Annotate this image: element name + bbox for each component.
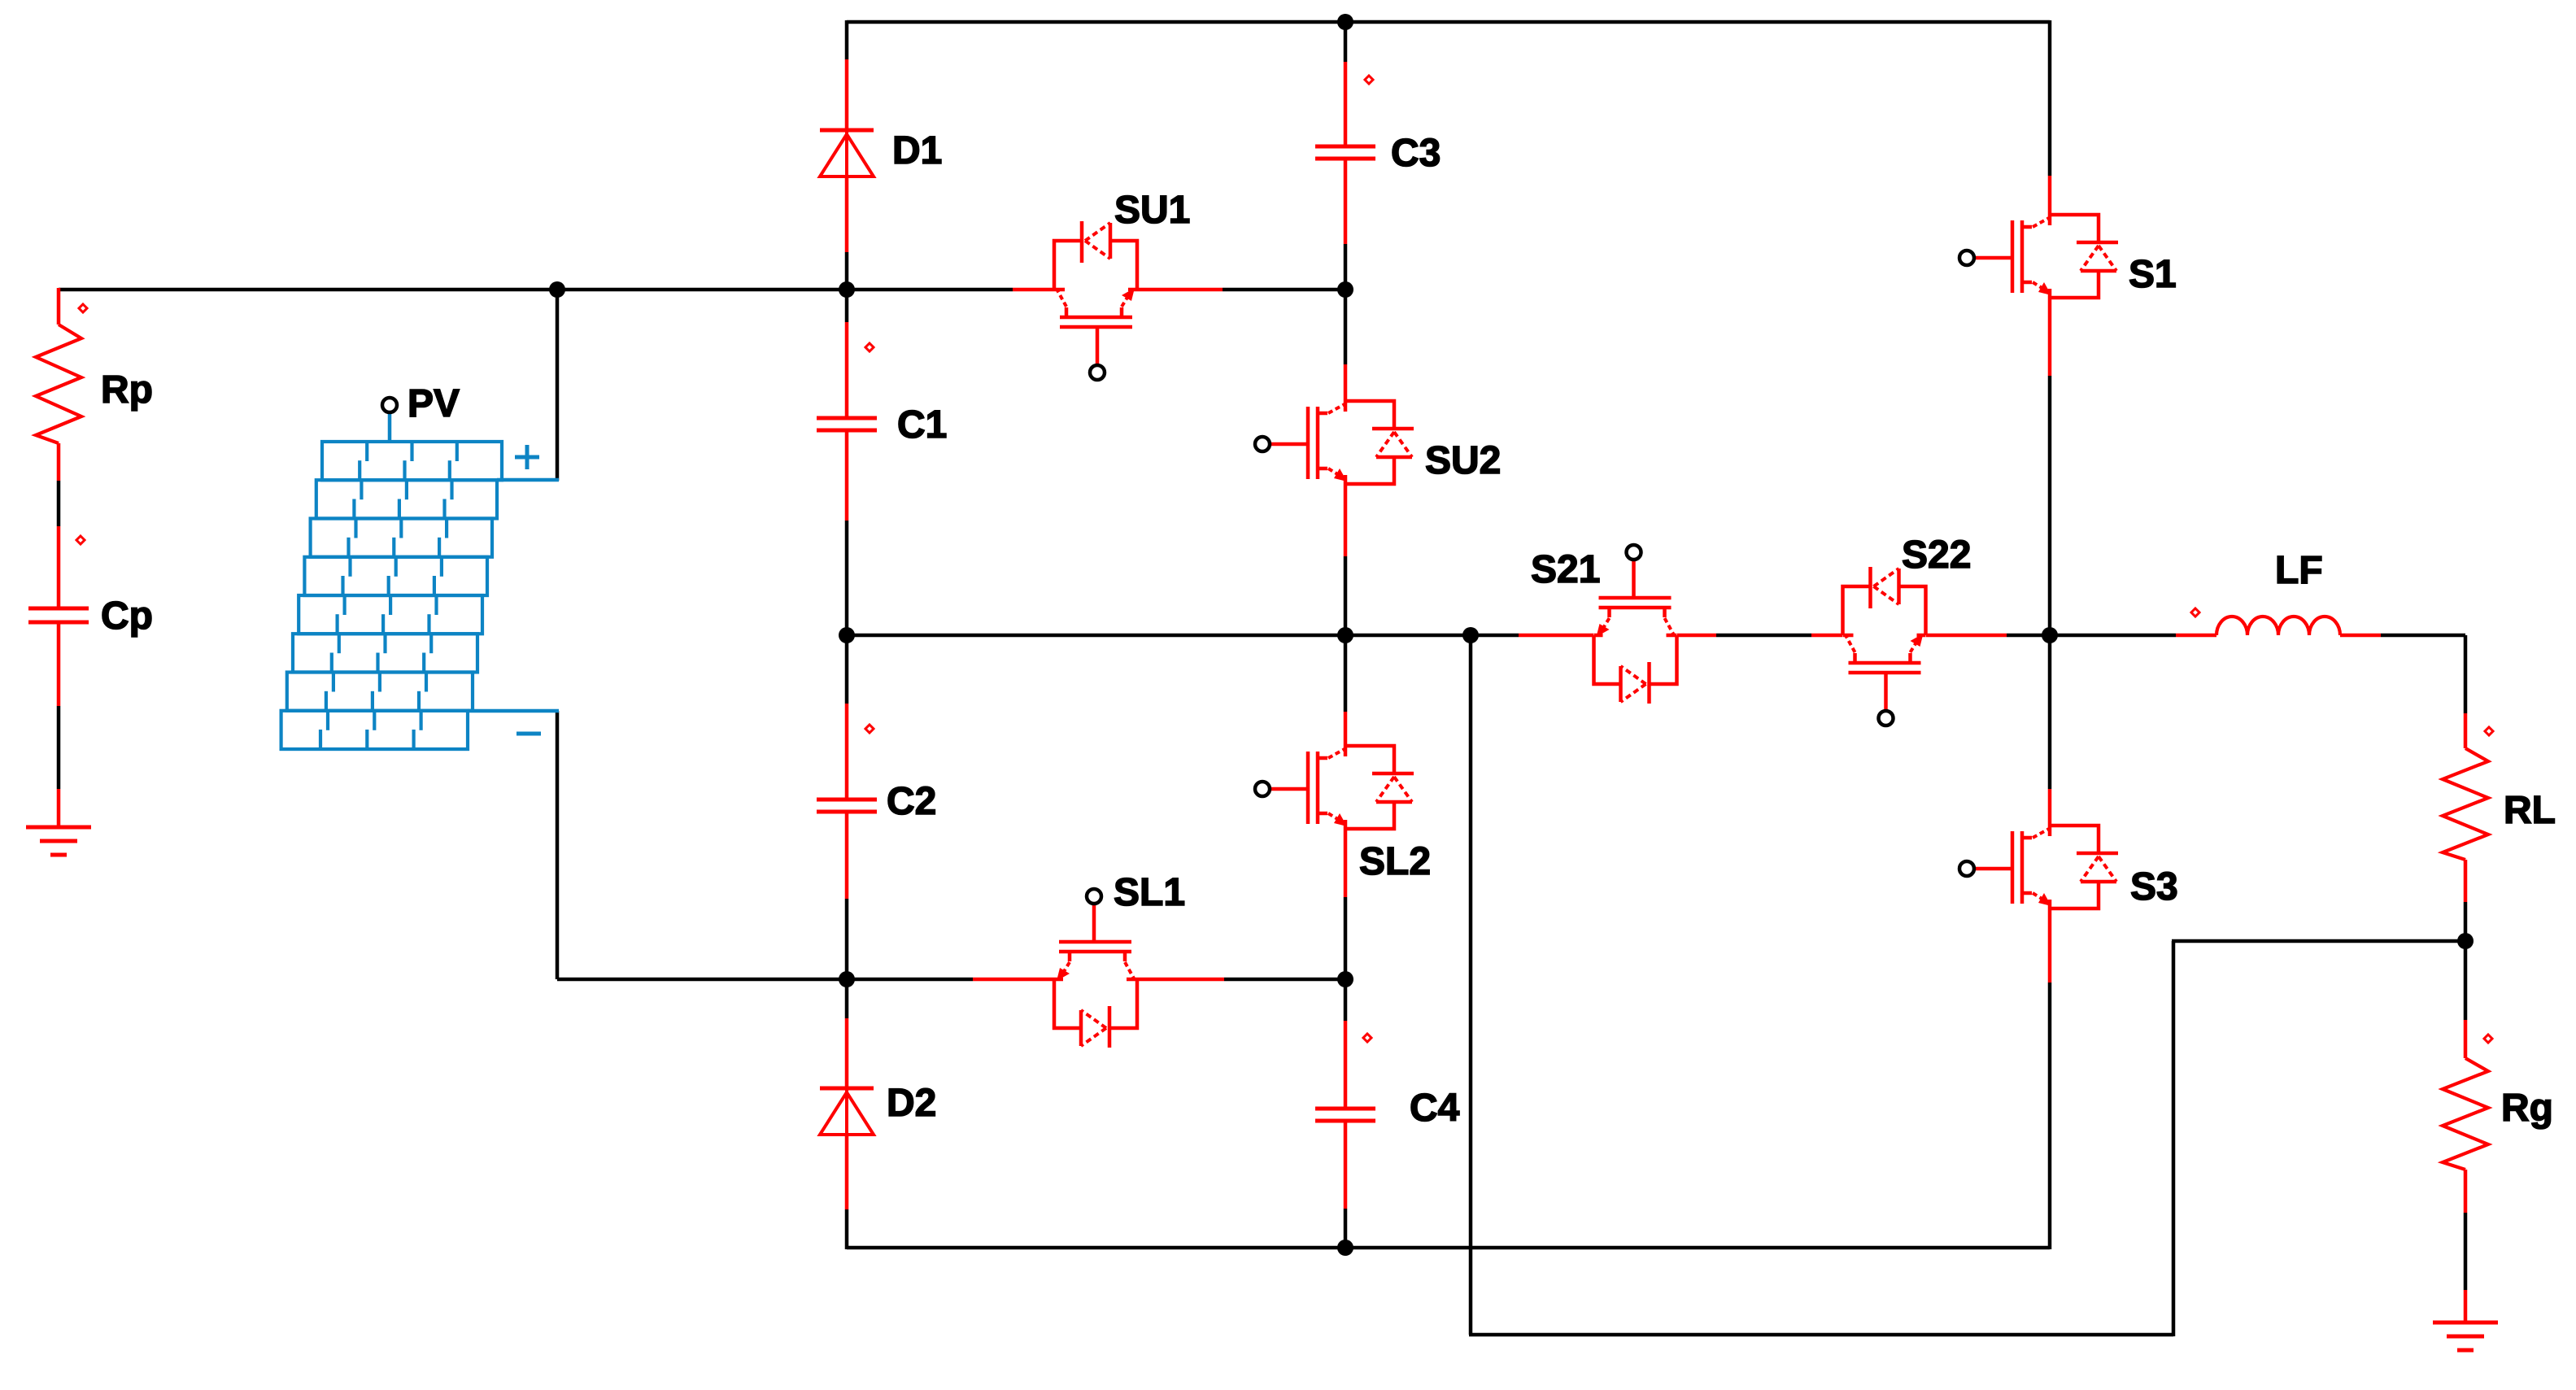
capacitor Cp xyxy=(28,607,89,611)
wire PV- leg xyxy=(556,711,560,979)
marker LF xyxy=(2191,608,2199,617)
wire SL1 left stub xyxy=(973,978,1054,982)
wire Rp top stub xyxy=(57,288,61,325)
wire PV+ leg xyxy=(556,290,560,481)
wire RL leg top xyxy=(2464,635,2468,713)
inductor LF xyxy=(2216,617,2340,635)
transistor S3 xyxy=(1959,826,2118,909)
wire LF right stub xyxy=(2340,634,2381,638)
wire mid row S22-out xyxy=(2007,634,2176,638)
wire lower row right xyxy=(1224,978,1345,982)
wire C4 top xyxy=(1344,979,1348,1021)
wire S1 bottom xyxy=(2048,298,2052,376)
marker Rg xyxy=(2484,1035,2492,1043)
node RLRG junction dot xyxy=(2457,933,2474,949)
capacitor C3 xyxy=(1315,145,1375,149)
wire RL top stub xyxy=(2464,713,2468,748)
resistor Rg xyxy=(2443,1058,2488,1170)
ground left xyxy=(26,826,91,830)
wire Cp-gnd xyxy=(57,622,61,706)
node F junction dot xyxy=(1337,627,1353,643)
svg-text:PV: PV xyxy=(408,382,460,425)
ground right xyxy=(2433,1321,2498,1325)
wire Rp-Cp xyxy=(57,443,61,481)
wire PV- blue xyxy=(468,709,559,713)
wire bus2 bottom xyxy=(1469,1333,2173,1337)
wire RL bottom black xyxy=(2464,902,2468,943)
svg-text:Cp: Cp xyxy=(101,595,153,638)
transistor S22 xyxy=(1843,567,1926,726)
wire C4 leg bottom xyxy=(1344,1209,1348,1249)
svg-text:C2: C2 xyxy=(887,780,936,823)
wire upper row right xyxy=(1223,288,1345,292)
node OUT junction dot xyxy=(2042,627,2058,643)
wire G down leg xyxy=(1469,635,1473,1335)
svg-text:Rg: Rg xyxy=(2501,1087,2553,1130)
wire D1 bottom xyxy=(845,176,849,252)
node H junction dot xyxy=(1337,1240,1353,1256)
transistor S21 xyxy=(1594,545,1677,704)
wire D1 top stub xyxy=(845,59,849,130)
marker C2 xyxy=(865,725,874,733)
diode D2 xyxy=(820,1087,874,1091)
wire PV+ blue xyxy=(497,478,559,482)
wire upper node row xyxy=(59,288,1013,292)
wire RL bottom stub xyxy=(2464,860,2468,902)
wire LF to corner xyxy=(2381,634,2465,638)
svg-text:D1: D1 xyxy=(892,129,942,172)
marker Cp xyxy=(76,536,85,544)
wire SU1 right stub xyxy=(1137,288,1223,292)
svg-text:Rp: Rp xyxy=(101,368,153,412)
wire D1 leg top xyxy=(845,20,849,59)
label PV plus xyxy=(515,445,539,469)
marker Rp xyxy=(79,304,87,312)
wire S3 leg bottom xyxy=(2048,983,2052,1249)
wire lower node row xyxy=(557,978,973,982)
wire SL2 top xyxy=(1344,635,1348,712)
wire C1 top xyxy=(845,290,849,322)
wire mid node row xyxy=(847,634,1519,638)
transistor SU2 xyxy=(1255,401,1414,484)
marker C3 xyxy=(1365,76,1373,84)
wire C1 bottom xyxy=(845,430,849,521)
wire SL1 right stub xyxy=(1137,978,1224,982)
wire mid row S21-S22 xyxy=(1716,634,1811,638)
marker RL xyxy=(2485,727,2493,735)
wire S22 right stub xyxy=(1926,634,2007,638)
resistor RL xyxy=(2443,748,2488,860)
wire riser x2672 xyxy=(2172,941,2176,1336)
wire y1157 row xyxy=(2172,939,2465,943)
wire Rg bottom xyxy=(2464,1170,2468,1213)
wire S3 bottom stub xyxy=(2048,909,2052,983)
capacitor C2 xyxy=(817,798,877,802)
wire Rg top black xyxy=(2464,941,2468,1020)
svg-text:SL2: SL2 xyxy=(1359,840,1431,883)
svg-text:D2: D2 xyxy=(887,1082,936,1125)
node G junction dot xyxy=(1462,627,1479,643)
svg-text:RL: RL xyxy=(2504,789,2556,832)
wire SU2 bottom xyxy=(1344,484,1348,556)
wire S21 right stub xyxy=(1677,634,1716,638)
transistor SL2 xyxy=(1255,746,1414,829)
wire D2 leg bottom xyxy=(845,1209,849,1249)
wire S1 top stub xyxy=(2048,176,2052,215)
wire S3 top xyxy=(2048,635,2052,789)
terminal PV xyxy=(382,398,397,412)
svg-text:SU2: SU2 xyxy=(1425,439,1501,482)
svg-text:S21: S21 xyxy=(1531,548,1600,591)
wire SU1 left stub xyxy=(1013,288,1054,292)
wire S1 leg top xyxy=(2048,20,2052,176)
solar module PV xyxy=(388,412,392,443)
svg-text:S1: S1 xyxy=(2129,253,2177,296)
diode D1 xyxy=(820,129,874,133)
node PV+ junction dot xyxy=(549,281,565,298)
svg-text:C4: C4 xyxy=(1410,1087,1460,1130)
wire S22 left stub xyxy=(1811,634,1842,638)
capacitor C4 xyxy=(1315,1107,1375,1111)
svg-text:LF: LF xyxy=(2275,549,2323,592)
wire S21 left stub xyxy=(1519,634,1593,638)
wire C2 bottom xyxy=(845,812,849,899)
svg-text:C1: C1 xyxy=(897,403,947,447)
node B junction dot xyxy=(1337,281,1353,298)
wire D2 top xyxy=(845,979,849,1018)
capacitor C1 xyxy=(817,416,877,420)
resistor Rp xyxy=(36,325,81,443)
wire SL2 bottom xyxy=(1344,829,1348,897)
node D junction dot xyxy=(1337,971,1353,987)
node C junction dot xyxy=(839,971,855,987)
wire C4 lower xyxy=(1344,1121,1348,1209)
label PV minus xyxy=(517,732,541,736)
wire bottom bus xyxy=(847,1246,2050,1250)
wire C3 lower xyxy=(1344,159,1348,244)
transistor S1 xyxy=(1959,215,2118,298)
wire LF left stub xyxy=(2176,634,2216,638)
node A junction dot xyxy=(839,281,855,298)
svg-text:C3: C3 xyxy=(1391,132,1441,175)
transistor SU1 xyxy=(1054,221,1137,380)
svg-text:SU1: SU1 xyxy=(1114,189,1190,232)
svg-text:S22: S22 xyxy=(1902,534,1971,577)
node P junction dot xyxy=(1337,14,1353,30)
marker C1 xyxy=(865,343,874,351)
svg-text:S3: S3 xyxy=(2130,865,2178,909)
wire SU2 top xyxy=(1344,290,1348,364)
wire D2 lower stub xyxy=(845,1135,849,1209)
wire top bus xyxy=(847,20,2050,24)
transistor SL1 xyxy=(1054,889,1137,1048)
svg-text:SL1: SL1 xyxy=(1114,871,1185,914)
wire C2 top xyxy=(845,635,849,704)
wire Rg top stub xyxy=(2464,1020,2468,1058)
node E junction dot xyxy=(839,627,855,643)
wire C3 top stub xyxy=(1344,20,1348,62)
marker C4 xyxy=(1363,1034,1371,1042)
wire C3 upper xyxy=(1344,62,1348,146)
